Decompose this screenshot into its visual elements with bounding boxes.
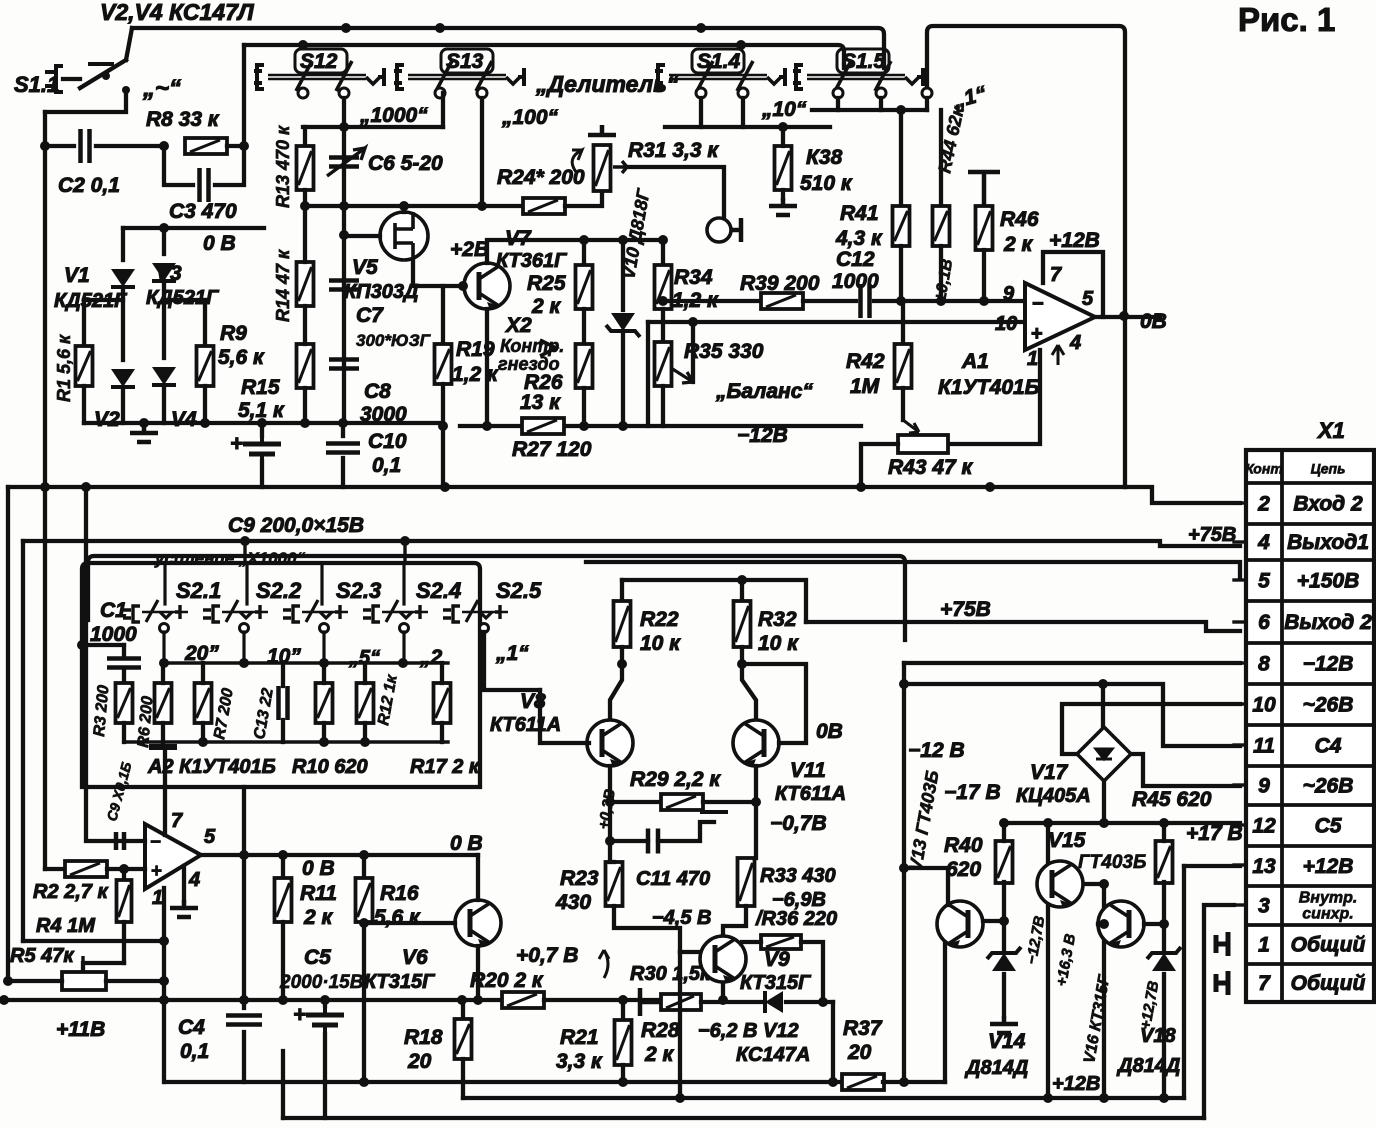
svg-text:0В: 0В <box>1140 310 1167 333</box>
svg-text:Вход 2: Вход 2 <box>1293 493 1363 516</box>
svg-text:R8 33 к: R8 33 к <box>146 108 220 131</box>
svg-text:„Делитель“: „Делитель“ <box>535 71 679 97</box>
svg-text:R19: R19 <box>456 338 495 361</box>
svg-text:10: 10 <box>1252 694 1276 717</box>
svg-text:11: 11 <box>1253 735 1275 758</box>
svg-text:Д814Д: Д814Д <box>1116 1055 1180 1077</box>
svg-text:КЦ405А: КЦ405А <box>1016 785 1091 807</box>
svg-text:КП303Д: КП303Д <box>344 281 419 303</box>
svg-text:Внутр.: Внутр. <box>1299 890 1358 907</box>
svg-text:С5: С5 <box>304 946 331 969</box>
svg-text:+12В: +12В <box>1303 855 1354 878</box>
svg-text:„~“: „~“ <box>142 75 181 102</box>
svg-text:X1: X1 <box>1316 418 1345 443</box>
svg-text:−12В: −12В <box>737 424 788 447</box>
svg-text:„Баланс“: „Баланс“ <box>715 380 813 403</box>
svg-text:3000: 3000 <box>360 403 407 426</box>
svg-text:R34: R34 <box>674 266 713 289</box>
svg-text:С4: С4 <box>1315 735 1342 758</box>
svg-text:КС147А: КС147А <box>736 1044 810 1066</box>
svg-text:R37: R37 <box>843 1017 883 1040</box>
svg-text:C3 470: C3 470 <box>169 200 237 223</box>
svg-text:~26В: ~26В <box>1303 694 1354 717</box>
svg-text:3,3 к: 3,3 к <box>556 1050 603 1073</box>
svg-text:R15: R15 <box>241 376 280 399</box>
svg-text:R43 47 к: R43 47 к <box>888 456 974 479</box>
svg-text:Выход 2: Выход 2 <box>1284 611 1372 634</box>
svg-text:Конт: Конт <box>1245 461 1283 477</box>
svg-text:КТ315Г: КТ315Г <box>740 972 812 994</box>
svg-text:R33 430: R33 430 <box>760 865 836 887</box>
svg-text:430: 430 <box>555 891 591 914</box>
svg-text:+: + <box>151 861 162 882</box>
svg-text:1: 1 <box>1258 934 1270 957</box>
svg-text:S2.5: S2.5 <box>496 578 542 603</box>
svg-text:−: − <box>150 832 161 853</box>
svg-text:К38: К38 <box>806 146 843 169</box>
svg-text:+2В: +2В <box>450 238 489 261</box>
svg-text:4: 4 <box>1069 332 1081 354</box>
svg-text:+75В: +75В <box>940 598 991 621</box>
svg-text:S2.4: S2.4 <box>416 578 461 603</box>
svg-text:„1000“: „1000“ <box>359 104 428 127</box>
svg-text:С8: С8 <box>364 380 391 403</box>
svg-text:C10: C10 <box>368 430 407 453</box>
svg-text:7: 7 <box>1258 972 1271 995</box>
svg-text:КТ611А: КТ611А <box>490 714 561 736</box>
svg-text:2 к: 2 к <box>303 906 334 929</box>
svg-text:R5 47к: R5 47к <box>10 945 74 967</box>
svg-text:0 В: 0 В <box>302 857 335 880</box>
svg-text:+0,7 В: +0,7 В <box>516 944 578 967</box>
svg-text:10: 10 <box>995 313 1017 335</box>
svg-text:0В: 0В <box>816 720 843 743</box>
svg-text:13: 13 <box>1252 855 1276 878</box>
svg-text:1: 1 <box>1027 348 1038 370</box>
svg-text:20: 20 <box>407 1050 432 1073</box>
svg-text:R18: R18 <box>404 1026 443 1049</box>
svg-text:1000: 1000 <box>832 270 879 293</box>
svg-text:V17: V17 <box>1030 761 1069 784</box>
svg-text:~26В: ~26В <box>1303 775 1354 798</box>
svg-text:R11: R11 <box>300 882 337 905</box>
svg-text:С9 200,0×15В: С9 200,0×15В <box>228 514 364 537</box>
svg-text:„1“: „1“ <box>495 642 529 665</box>
svg-text:S2.1: S2.1 <box>176 578 221 603</box>
svg-text:С4: С4 <box>178 1016 205 1039</box>
svg-text:R40: R40 <box>944 834 983 857</box>
svg-text:/R36 220: /R36 220 <box>755 908 837 930</box>
svg-text:R31 3,3 к: R31 3,3 к <box>628 139 719 162</box>
svg-text:5,6 к: 5,6 к <box>374 906 421 929</box>
svg-text:V15: V15 <box>1048 829 1086 852</box>
svg-text:4,3 к: 4,3 к <box>835 227 883 250</box>
svg-text:3: 3 <box>1258 895 1270 918</box>
svg-text:V9: V9 <box>764 948 790 971</box>
svg-text:−12 В: −12 В <box>908 739 965 762</box>
svg-text:5: 5 <box>1082 288 1094 310</box>
svg-text:2 к: 2 к <box>1003 233 1034 256</box>
svg-text:−6,2 В V12: −6,2 В V12 <box>698 1020 799 1042</box>
svg-text:R22: R22 <box>640 608 679 631</box>
svg-text:R2 2,7 к: R2 2,7 к <box>33 881 108 903</box>
svg-text:Выход1: Выход1 <box>1287 531 1369 554</box>
svg-text:А1: А1 <box>961 350 989 373</box>
svg-text:5,1 к: 5,1 к <box>238 399 285 422</box>
svg-text:10 к: 10 к <box>640 632 681 655</box>
svg-text:R45 620: R45 620 <box>1132 788 1212 811</box>
svg-text:синхр.: синхр. <box>1302 906 1353 923</box>
svg-text:9: 9 <box>1003 283 1015 305</box>
svg-text:R28: R28 <box>641 1019 680 1042</box>
svg-text:1: 1 <box>152 887 163 909</box>
svg-text:0 В: 0 В <box>450 832 483 855</box>
svg-text:КТ611А: КТ611А <box>775 783 846 805</box>
svg-text:R39 200: R39 200 <box>740 272 820 295</box>
svg-text:Рис. 1: Рис. 1 <box>1238 1 1335 38</box>
svg-text:1,2 к: 1,2 к <box>452 363 499 386</box>
svg-text:1000: 1000 <box>90 623 137 646</box>
svg-text:R29 2,2 к: R29 2,2 к <box>630 768 721 791</box>
svg-text:КТ361Г: КТ361Г <box>496 250 568 272</box>
svg-text:C6 5-20: C6 5-20 <box>368 152 443 175</box>
svg-text:−4,5 В: −4,5 В <box>652 907 711 929</box>
svg-text:R25: R25 <box>527 272 566 295</box>
svg-text:Общий: Общий <box>1291 934 1366 957</box>
svg-text:4: 4 <box>188 869 200 891</box>
svg-text:R30 1,5к: R30 1,5к <box>630 963 711 985</box>
svg-text:V1: V1 <box>64 264 90 287</box>
svg-text:V18: V18 <box>1140 1025 1176 1047</box>
svg-text:510 к: 510 к <box>800 172 853 195</box>
svg-text:К1УТ401Б: К1УТ401Б <box>938 376 1040 399</box>
svg-text:S2.2: S2.2 <box>256 578 302 603</box>
svg-text:0,1: 0,1 <box>372 454 401 477</box>
svg-text:Цепь: Цепь <box>1311 461 1346 477</box>
svg-text:C2 0,1: C2 0,1 <box>58 174 120 197</box>
svg-text:R21: R21 <box>560 1026 599 1049</box>
svg-text:Д814Д: Д814Д <box>964 1057 1028 1079</box>
svg-text:V2: V2 <box>94 408 120 431</box>
svg-text:2 к: 2 к <box>531 295 562 318</box>
svg-text:R32: R32 <box>758 608 797 631</box>
svg-text:R10 620: R10 620 <box>292 756 368 778</box>
svg-text:9: 9 <box>1258 775 1270 798</box>
svg-text:R23: R23 <box>560 867 599 890</box>
svg-text:−: − <box>1032 293 1044 315</box>
svg-text:„10“: „10“ <box>761 98 807 121</box>
svg-text:R42: R42 <box>846 350 885 373</box>
svg-text:R1 5,6 к: R1 5,6 к <box>54 334 74 402</box>
svg-text:S2.3: S2.3 <box>336 578 381 603</box>
svg-text:S13: S13 <box>446 50 484 73</box>
svg-text:R27 120: R27 120 <box>512 438 592 461</box>
svg-text:V4: V4 <box>171 408 197 431</box>
svg-text:R16: R16 <box>380 882 419 905</box>
svg-text:С11 470: С11 470 <box>636 868 710 890</box>
svg-text:КТ315Г: КТ315Г <box>364 971 436 993</box>
svg-text:2: 2 <box>1257 493 1270 516</box>
svg-text:„2: „2 <box>419 646 443 669</box>
svg-text:4: 4 <box>1257 531 1270 554</box>
svg-text:1М: 1М <box>850 375 880 398</box>
svg-text:20: 20 <box>847 1041 872 1064</box>
svg-text:S1.4: S1.4 <box>697 50 741 73</box>
svg-text:С7: С7 <box>356 304 384 327</box>
svg-text:R24* 200: R24* 200 <box>497 166 585 189</box>
svg-text:ГТ403Б: ГТ403Б <box>1078 852 1146 873</box>
svg-text:R4 1М: R4 1М <box>36 915 96 937</box>
svg-text:+12В: +12В <box>1052 1073 1100 1095</box>
svg-text:2 к: 2 к <box>644 1043 675 1066</box>
svg-text:R20 2 к: R20 2 к <box>470 969 544 992</box>
svg-text:С5: С5 <box>1315 815 1342 838</box>
svg-text:V14: V14 <box>988 1030 1026 1053</box>
svg-text:−0,7В: −0,7В <box>770 812 827 835</box>
svg-text:620: 620 <box>946 858 981 881</box>
svg-text:R46: R46 <box>1000 208 1039 231</box>
svg-text:+: + <box>293 1002 306 1027</box>
svg-text:R14 47 к: R14 47 к <box>273 249 293 322</box>
svg-text:V2,V4 КС147Л: V2,V4 КС147Л <box>100 0 255 25</box>
svg-text:+12В: +12В <box>1049 229 1100 252</box>
svg-text:R9: R9 <box>220 322 247 345</box>
svg-text:7: 7 <box>171 810 183 832</box>
svg-text:V11: V11 <box>790 759 826 782</box>
svg-text:R13 470 к: R13 470 к <box>273 125 293 208</box>
svg-text:+: + <box>1031 323 1043 345</box>
svg-text:6: 6 <box>1258 611 1270 634</box>
svg-text:С12: С12 <box>836 248 875 271</box>
svg-text:С1: С1 <box>100 599 127 622</box>
svg-text:R35 330: R35 330 <box>684 340 764 363</box>
svg-text:5: 5 <box>1258 570 1270 593</box>
svg-text:V6: V6 <box>402 946 428 969</box>
svg-text:+11В: +11В <box>56 1018 105 1041</box>
svg-text:5,6 к: 5,6 к <box>218 346 265 369</box>
svg-text:2000·15В: 2000·15В <box>279 972 364 993</box>
svg-text:V3: V3 <box>156 262 182 285</box>
svg-text:5: 5 <box>204 826 216 848</box>
svg-text:S12: S12 <box>300 50 338 73</box>
svg-text:13 к: 13 к <box>520 391 561 414</box>
svg-text:7: 7 <box>1050 264 1062 286</box>
svg-text:−12В: −12В <box>1303 653 1354 676</box>
svg-text:S1.5: S1.5 <box>842 50 886 73</box>
svg-text:10 к: 10 к <box>758 632 799 655</box>
svg-text:+150В: +150В <box>1297 570 1359 593</box>
svg-text:Общий: Общий <box>1291 972 1366 995</box>
svg-text:0,1: 0,1 <box>180 1040 209 1063</box>
svg-text:+75В: +75В <box>1188 524 1236 546</box>
svg-text:0 В: 0 В <box>203 232 236 255</box>
svg-text:300*ЮЗГ: 300*ЮЗГ <box>356 331 432 350</box>
svg-text:R17 2 к: R17 2 к <box>410 756 480 778</box>
svg-text:Контр.: Контр. <box>500 336 564 356</box>
svg-text:„100“: „100“ <box>501 106 559 129</box>
svg-text:X2: X2 <box>505 314 532 337</box>
svg-text:V5: V5 <box>352 256 378 279</box>
svg-text:12: 12 <box>1252 815 1276 838</box>
svg-text:−17 В: −17 В <box>944 781 1001 804</box>
svg-text:+: + <box>230 431 243 456</box>
svg-text:8: 8 <box>1258 653 1270 676</box>
svg-text:R41: R41 <box>840 202 879 225</box>
